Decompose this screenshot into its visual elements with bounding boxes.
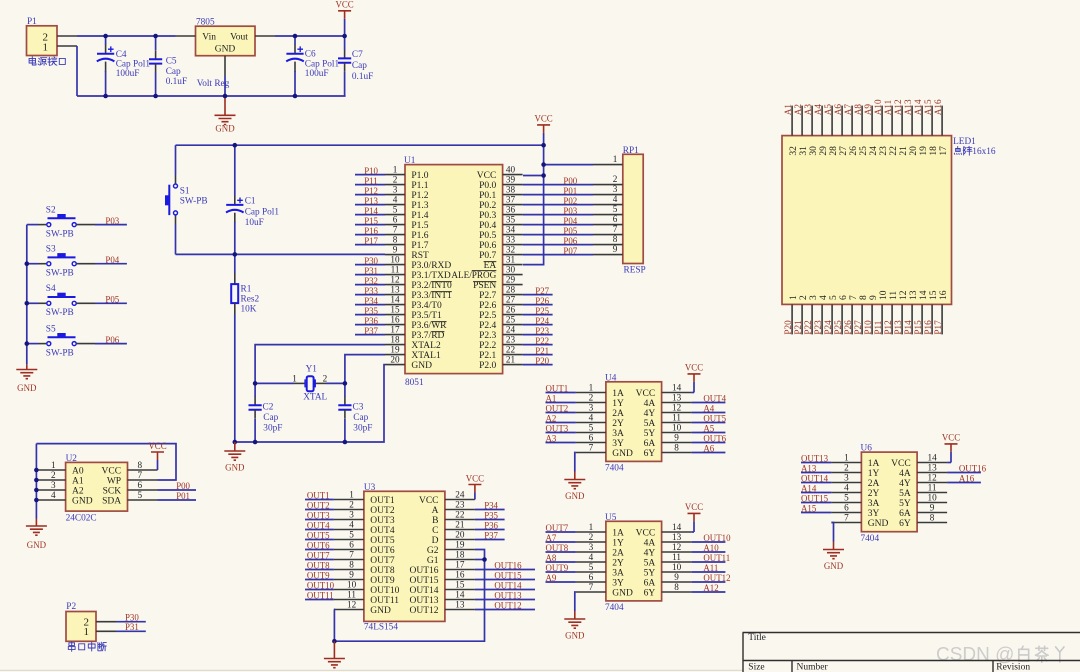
wire node A5 bbox=[692, 424, 726, 434]
svg-text:A6: A6 bbox=[833, 104, 843, 116]
wire node P06 bbox=[523, 236, 593, 246]
wire node OUT4 bbox=[692, 394, 727, 404]
svg-text:32: 32 bbox=[789, 146, 799, 156]
svg-text:A12: A12 bbox=[703, 583, 718, 593]
wire node A4 bbox=[692, 404, 726, 414]
svg-text:Cap: Cap bbox=[352, 61, 367, 71]
svg-text:22: 22 bbox=[455, 510, 465, 520]
svg-text:P13: P13 bbox=[364, 196, 378, 206]
svg-text:G1: G1 bbox=[427, 556, 439, 566]
svg-text:2A: 2A bbox=[612, 409, 624, 419]
wire P1 pin1 down to ground rail bbox=[76, 46, 78, 96]
svg-text:P14: P14 bbox=[364, 206, 378, 216]
svg-text:2A: 2A bbox=[868, 479, 880, 489]
wire node P05 bbox=[523, 226, 593, 236]
svg-text:A15: A15 bbox=[801, 504, 817, 514]
svg-text:A10: A10 bbox=[703, 543, 719, 553]
connector P2 bbox=[66, 602, 116, 651]
wire node P31 bbox=[116, 622, 146, 632]
svg-text:5A: 5A bbox=[644, 419, 656, 429]
svg-text:2: 2 bbox=[589, 393, 594, 403]
svg-text:P02: P02 bbox=[563, 196, 577, 206]
svg-text:5A: 5A bbox=[899, 489, 911, 499]
junction U2 bus bbox=[34, 468, 39, 503]
svg-text:GND: GND bbox=[411, 361, 432, 371]
svg-text:P36: P36 bbox=[364, 316, 378, 326]
wire node P36 bbox=[475, 521, 505, 531]
svg-text:P2.5: P2.5 bbox=[479, 311, 496, 321]
svg-text:P32: P32 bbox=[364, 276, 378, 286]
svg-text:C3: C3 bbox=[353, 402, 364, 412]
ground GND below U3 bbox=[324, 641, 345, 672]
svg-text:GND: GND bbox=[868, 519, 889, 529]
wire node P30 bbox=[116, 613, 146, 623]
svg-text:18: 18 bbox=[390, 335, 400, 345]
svg-text:7: 7 bbox=[844, 513, 849, 523]
svg-text:OUT13: OUT13 bbox=[409, 596, 438, 606]
svg-text:A9: A9 bbox=[863, 104, 873, 116]
svg-text:8: 8 bbox=[930, 513, 935, 523]
wire node OUT13 bbox=[801, 454, 831, 464]
svg-text:19: 19 bbox=[455, 540, 465, 550]
IC U1 8051 bbox=[385, 156, 523, 388]
svg-text:5: 5 bbox=[349, 530, 354, 540]
wire S2-S5 ground bus bbox=[26, 225, 28, 365]
svg-text:A7: A7 bbox=[546, 533, 557, 543]
svg-text:7: 7 bbox=[613, 224, 618, 234]
svg-text:A1: A1 bbox=[546, 394, 557, 404]
resistor R1 10K bbox=[231, 254, 259, 442]
svg-text:P33: P33 bbox=[364, 286, 378, 296]
svg-text:30: 30 bbox=[506, 265, 516, 275]
svg-text:26: 26 bbox=[506, 305, 516, 315]
svg-text:RP1: RP1 bbox=[623, 146, 639, 156]
wire node A3 bbox=[546, 434, 576, 444]
svg-text:6: 6 bbox=[839, 295, 849, 300]
capacitor C3 30pF bbox=[338, 383, 372, 442]
svg-text:OUT1: OUT1 bbox=[307, 491, 330, 501]
switch S5 SW-PB bbox=[27, 324, 95, 358]
watermark CSDN bbox=[936, 645, 1064, 666]
ground GND below U2 bbox=[26, 519, 47, 551]
voltage regulator 7805 bbox=[176, 18, 276, 90]
switch S2 SW-PB bbox=[27, 205, 95, 239]
svg-text:OUT10: OUT10 bbox=[703, 533, 731, 543]
svg-text:SW-PB: SW-PB bbox=[46, 348, 74, 358]
svg-text:22: 22 bbox=[506, 345, 516, 355]
svg-text:P23: P23 bbox=[813, 320, 823, 335]
svg-text:P15: P15 bbox=[913, 320, 923, 335]
wire node OUT2 bbox=[305, 501, 334, 511]
svg-text:2: 2 bbox=[393, 175, 398, 185]
ground GND switches bbox=[16, 364, 37, 393]
svg-text:A8: A8 bbox=[853, 104, 863, 116]
svg-text:7404: 7404 bbox=[605, 464, 624, 474]
svg-text:1: 1 bbox=[292, 373, 297, 383]
svg-text:S3: S3 bbox=[46, 244, 56, 254]
svg-text:20: 20 bbox=[390, 355, 400, 365]
wire node OUT5 bbox=[692, 414, 727, 424]
svg-text:A2: A2 bbox=[793, 104, 803, 116]
svg-text:23: 23 bbox=[455, 500, 465, 510]
wire node OUT15 bbox=[475, 571, 535, 581]
wire node P31 bbox=[355, 266, 385, 276]
svg-text:13: 13 bbox=[909, 290, 919, 300]
svg-text:P30: P30 bbox=[125, 613, 139, 623]
wire node OUT9 bbox=[305, 571, 334, 581]
svg-text:3A: 3A bbox=[612, 569, 624, 579]
wire node OUT3 bbox=[546, 424, 576, 434]
svg-text:OUT2: OUT2 bbox=[546, 404, 569, 414]
svg-text:30pF: 30pF bbox=[353, 424, 372, 434]
svg-text:P03: P03 bbox=[105, 216, 119, 226]
svg-text:P3.0/RXD: P3.0/RXD bbox=[411, 261, 451, 271]
svg-text:4: 4 bbox=[349, 520, 354, 530]
svg-text:6A: 6A bbox=[644, 579, 656, 589]
svg-text:21: 21 bbox=[506, 355, 516, 365]
capacitor C2 30pF bbox=[249, 383, 283, 442]
svg-text:P10: P10 bbox=[863, 320, 873, 335]
svg-text:34: 34 bbox=[506, 225, 516, 235]
svg-text:OUT8: OUT8 bbox=[370, 566, 395, 576]
wire node P12 bbox=[355, 186, 385, 196]
svg-text:U4: U4 bbox=[605, 373, 617, 383]
svg-text:P17: P17 bbox=[933, 320, 943, 335]
svg-text:P17: P17 bbox=[364, 236, 378, 246]
svg-text:P1.0: P1.0 bbox=[411, 171, 428, 181]
junction dots power rails bbox=[103, 34, 347, 99]
svg-text:28: 28 bbox=[506, 285, 516, 295]
svg-text:3: 3 bbox=[393, 185, 398, 195]
wire node P24 bbox=[523, 316, 553, 326]
svg-text:30: 30 bbox=[809, 146, 819, 156]
wire node A7 bbox=[546, 533, 576, 543]
svg-text:22: 22 bbox=[889, 146, 899, 156]
wire node P15 bbox=[355, 216, 385, 226]
svg-text:OUT14: OUT14 bbox=[409, 586, 438, 596]
svg-text:P31: P31 bbox=[364, 266, 378, 276]
svg-text:2Y: 2Y bbox=[868, 489, 880, 499]
svg-text:OUT4: OUT4 bbox=[703, 394, 726, 404]
svg-text:8: 8 bbox=[674, 582, 679, 592]
svg-text:P0.6: P0.6 bbox=[479, 241, 496, 251]
svg-text:11: 11 bbox=[672, 413, 681, 423]
svg-text:2Y: 2Y bbox=[612, 419, 624, 429]
wire RP1 pin1 bbox=[544, 164, 593, 166]
svg-text:6: 6 bbox=[844, 503, 849, 513]
svg-text:6: 6 bbox=[138, 480, 143, 490]
svg-text:7: 7 bbox=[589, 443, 594, 453]
svg-text:P0.5: P0.5 bbox=[479, 231, 496, 241]
wire node P07 bbox=[523, 246, 593, 256]
svg-text:6: 6 bbox=[589, 433, 594, 443]
power port VCC top bbox=[335, 0, 353, 19]
svg-text:3: 3 bbox=[844, 473, 849, 483]
svg-text:VCC: VCC bbox=[335, 0, 353, 10]
svg-text:16: 16 bbox=[939, 290, 949, 300]
wire U3 G2 G1 to ground bbox=[334, 550, 484, 642]
svg-text:12: 12 bbox=[390, 275, 400, 285]
svg-text:P1.5: P1.5 bbox=[411, 221, 428, 231]
svg-text:A11: A11 bbox=[703, 563, 718, 573]
wire P1 pin2 to 7805 Vin bbox=[77, 35, 176, 37]
svg-text:OUT9: OUT9 bbox=[307, 571, 330, 581]
svg-text:VCC: VCC bbox=[636, 529, 656, 539]
wire 7805 Vout to VCC corner bbox=[275, 35, 345, 37]
svg-text:3: 3 bbox=[589, 403, 594, 413]
svg-text:U5: U5 bbox=[605, 513, 617, 523]
svg-text:P13: P13 bbox=[893, 320, 903, 335]
svg-text:R1: R1 bbox=[241, 285, 252, 295]
svg-text:A13: A13 bbox=[903, 99, 913, 115]
svg-text:A0: A0 bbox=[72, 467, 84, 477]
svg-text:Cap: Cap bbox=[166, 67, 181, 77]
svg-text:29: 29 bbox=[506, 275, 516, 285]
wire node OUT2 bbox=[546, 404, 576, 414]
svg-text:2: 2 bbox=[613, 174, 618, 184]
resistor pack RP1 RESP bbox=[593, 146, 646, 275]
svg-text:A: A bbox=[432, 506, 439, 516]
wire node P06 bbox=[95, 335, 127, 345]
svg-text:OUT12: OUT12 bbox=[703, 573, 730, 583]
svg-text:OUT14: OUT14 bbox=[801, 474, 829, 484]
svg-text:8: 8 bbox=[859, 295, 869, 300]
wire node P04 bbox=[523, 216, 593, 226]
svg-text:Number: Number bbox=[797, 663, 829, 672]
svg-text:P06: P06 bbox=[563, 236, 577, 246]
wire node OUT10 bbox=[692, 533, 731, 543]
svg-text:6A: 6A bbox=[899, 509, 911, 519]
wire node A13 bbox=[801, 464, 831, 474]
svg-text:11: 11 bbox=[889, 291, 899, 300]
svg-text:A16: A16 bbox=[933, 99, 943, 115]
wire node P01 (SDA) bbox=[158, 491, 197, 501]
svg-text:3A: 3A bbox=[612, 429, 624, 439]
svg-text:GND: GND bbox=[565, 631, 585, 641]
svg-text:1: 1 bbox=[349, 490, 354, 500]
wire node P03 bbox=[95, 216, 127, 226]
svg-text:10: 10 bbox=[347, 580, 357, 590]
svg-text:U6: U6 bbox=[861, 444, 873, 454]
svg-text:0.1uF: 0.1uF bbox=[166, 77, 187, 87]
wire ground rail y96 bbox=[77, 95, 346, 97]
wire node P33 bbox=[355, 286, 385, 296]
power port VCC bbox=[685, 502, 703, 521]
svg-text:10: 10 bbox=[672, 562, 682, 572]
svg-text:OUT4: OUT4 bbox=[370, 526, 395, 536]
junction reset nodes bbox=[233, 143, 238, 257]
svg-text:VCC: VCC bbox=[477, 171, 497, 181]
svg-text:5: 5 bbox=[613, 204, 618, 214]
wire node OUT10 bbox=[305, 581, 335, 591]
svg-text:1A: 1A bbox=[612, 529, 624, 539]
svg-text:24: 24 bbox=[506, 325, 516, 335]
svg-text:P20: P20 bbox=[535, 356, 549, 366]
wire U1 pin40 VCC bbox=[523, 175, 544, 177]
svg-text:P16: P16 bbox=[923, 320, 933, 335]
svg-text:3: 3 bbox=[613, 184, 618, 194]
svg-text:10uF: 10uF bbox=[245, 218, 264, 228]
svg-text:GND: GND bbox=[72, 497, 93, 507]
svg-text:P37: P37 bbox=[484, 531, 498, 541]
capacitor C4 100uF bbox=[97, 36, 151, 96]
svg-text:P2.2: P2.2 bbox=[479, 341, 496, 351]
svg-text:VCC: VCC bbox=[942, 433, 960, 443]
svg-text:Size: Size bbox=[748, 663, 764, 672]
svg-text:OUT3: OUT3 bbox=[370, 516, 395, 526]
wire node P35 bbox=[355, 306, 385, 316]
svg-text:7: 7 bbox=[393, 225, 398, 235]
svg-text:5: 5 bbox=[829, 295, 839, 300]
switch S1 SW-PB bbox=[165, 184, 208, 215]
wire node OUT16 bbox=[947, 464, 986, 474]
svg-text:U3: U3 bbox=[364, 483, 376, 493]
wire node OUT12 bbox=[475, 601, 535, 611]
ground GND bbox=[564, 611, 585, 641]
svg-text:8: 8 bbox=[138, 460, 143, 470]
svg-text:P0.2: P0.2 bbox=[479, 201, 496, 211]
svg-text:37: 37 bbox=[506, 195, 516, 205]
wire XTAL1 net bbox=[345, 355, 385, 384]
svg-text:A2: A2 bbox=[546, 414, 557, 424]
svg-text:S5: S5 bbox=[46, 324, 56, 334]
svg-text:D: D bbox=[432, 536, 439, 546]
svg-text:RST: RST bbox=[411, 251, 429, 261]
svg-text:A4: A4 bbox=[813, 104, 823, 116]
svg-text:A3: A3 bbox=[546, 434, 557, 444]
svg-text:A7: A7 bbox=[843, 104, 853, 116]
svg-text:29: 29 bbox=[819, 146, 829, 156]
svg-text:P15: P15 bbox=[364, 216, 378, 226]
svg-text:VCC: VCC bbox=[685, 363, 703, 373]
svg-text:GND: GND bbox=[17, 383, 37, 393]
svg-text:2A: 2A bbox=[612, 549, 624, 559]
wire node OUT1 bbox=[546, 384, 576, 394]
svg-text:1: 1 bbox=[393, 165, 398, 175]
svg-text:P21: P21 bbox=[793, 320, 803, 335]
svg-text:P0.3: P0.3 bbox=[479, 211, 496, 221]
svg-text:P36: P36 bbox=[484, 521, 498, 531]
svg-text:A4: A4 bbox=[703, 404, 714, 414]
svg-text:XTAL: XTAL bbox=[303, 392, 327, 402]
svg-text:A1: A1 bbox=[72, 477, 84, 487]
svg-text:S4: S4 bbox=[46, 284, 56, 294]
svg-text:P2.7: P2.7 bbox=[479, 291, 496, 301]
svg-text:P30: P30 bbox=[364, 256, 378, 266]
svg-text:Cap Pol1: Cap Pol1 bbox=[305, 59, 340, 69]
svg-text:A13: A13 bbox=[801, 464, 817, 474]
svg-text:1: 1 bbox=[43, 41, 49, 53]
svg-text:A16: A16 bbox=[959, 474, 975, 484]
svg-text:P25: P25 bbox=[833, 320, 843, 335]
power port VCC bbox=[942, 433, 960, 452]
svg-text:3: 3 bbox=[809, 295, 819, 300]
svg-text:8: 8 bbox=[393, 235, 398, 245]
crystal Y1 XTAL bbox=[255, 365, 345, 403]
svg-text:5: 5 bbox=[589, 423, 594, 433]
wire node P14 bbox=[355, 206, 385, 216]
svg-text:OUT10: OUT10 bbox=[370, 586, 399, 596]
svg-text:39: 39 bbox=[506, 175, 516, 185]
wire GND pin7 bbox=[575, 592, 576, 611]
wire node P25 bbox=[523, 306, 553, 316]
svg-text:U1: U1 bbox=[404, 156, 416, 166]
svg-text:OUT2: OUT2 bbox=[370, 506, 395, 516]
svg-text:VCC: VCC bbox=[685, 502, 703, 512]
wire node P01 bbox=[523, 186, 593, 196]
svg-text:12: 12 bbox=[672, 403, 682, 413]
svg-text:11: 11 bbox=[672, 552, 681, 562]
svg-text:7: 7 bbox=[849, 295, 859, 300]
wire node P00 bbox=[523, 176, 593, 186]
svg-text:A8: A8 bbox=[546, 553, 557, 563]
svg-text:P05: P05 bbox=[105, 295, 119, 305]
svg-text:XTAL2: XTAL2 bbox=[411, 341, 441, 351]
svg-text:28: 28 bbox=[829, 146, 839, 156]
svg-text:A5: A5 bbox=[703, 424, 714, 434]
svg-text:4Y: 4Y bbox=[644, 409, 656, 419]
svg-text:14: 14 bbox=[672, 522, 682, 532]
svg-text:P0.7: P0.7 bbox=[479, 251, 496, 261]
wire node OUT4 bbox=[305, 521, 334, 531]
svg-text:10K: 10K bbox=[241, 305, 257, 315]
wire node OUT15 bbox=[801, 494, 831, 504]
svg-text:P3.4/T0: P3.4/T0 bbox=[411, 301, 442, 311]
svg-text:25: 25 bbox=[506, 315, 516, 325]
wire U3 GND pin12 bbox=[333, 610, 336, 642]
wire node P02 bbox=[523, 196, 593, 206]
power port VCC U3 bbox=[466, 473, 484, 492]
wire U2 address/gnd bus bbox=[35, 444, 37, 519]
svg-text:5: 5 bbox=[138, 490, 143, 500]
svg-text:C2: C2 bbox=[263, 403, 274, 413]
svg-text:4: 4 bbox=[844, 483, 849, 493]
svg-text:OUT8: OUT8 bbox=[546, 543, 569, 553]
svg-text:SW-PB: SW-PB bbox=[46, 229, 74, 239]
svg-text:P2.4: P2.4 bbox=[479, 321, 496, 331]
switch S4 SW-PB bbox=[27, 284, 95, 318]
svg-text:Cap: Cap bbox=[263, 413, 278, 423]
svg-text:17: 17 bbox=[455, 560, 465, 570]
svg-text:2: 2 bbox=[589, 532, 594, 542]
svg-text:7404: 7404 bbox=[861, 534, 880, 544]
svg-text:C1: C1 bbox=[245, 197, 256, 207]
svg-text:OUT1: OUT1 bbox=[370, 496, 395, 506]
svg-text:OUT16: OUT16 bbox=[959, 464, 987, 474]
svg-text:P3.2/INT0: P3.2/INT0 bbox=[411, 281, 452, 291]
wire node OUT14 bbox=[475, 581, 535, 591]
svg-text:5: 5 bbox=[393, 205, 398, 215]
svg-text:12: 12 bbox=[928, 473, 938, 483]
svg-text:P05: P05 bbox=[563, 226, 577, 236]
svg-text:P07: P07 bbox=[563, 246, 577, 256]
wire xtal ground rail y442 bbox=[235, 365, 385, 442]
svg-text:P1.7: P1.7 bbox=[411, 241, 428, 251]
svg-text:OUT5: OUT5 bbox=[370, 536, 395, 546]
svg-text:13: 13 bbox=[672, 393, 682, 403]
svg-text:C4: C4 bbox=[116, 50, 127, 60]
svg-text:1: 1 bbox=[613, 154, 618, 164]
wire node P10 bbox=[355, 166, 385, 176]
svg-text:1A: 1A bbox=[868, 459, 880, 469]
svg-text:U2: U2 bbox=[66, 454, 78, 464]
wire GND pin7 bbox=[831, 523, 833, 542]
svg-text:10: 10 bbox=[672, 423, 682, 433]
capacitor C6 100uF bbox=[286, 36, 339, 96]
svg-text:Cap: Cap bbox=[353, 413, 368, 423]
svg-text:GND: GND bbox=[565, 491, 585, 501]
svg-text:30pF: 30pF bbox=[263, 424, 282, 434]
